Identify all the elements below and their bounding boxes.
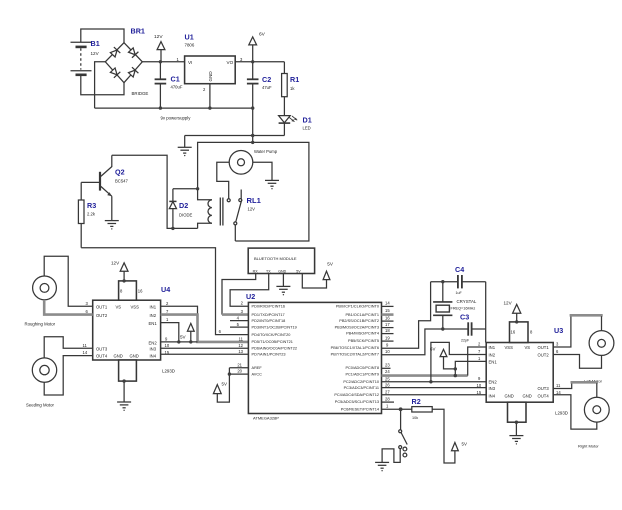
junction coil bottom D2 bbox=[171, 227, 174, 230]
wire U4 EN2 bbox=[161, 341, 198, 343]
svg-text:LED: LED bbox=[303, 126, 311, 131]
junction C1 rail bbox=[159, 106, 162, 109]
motor driver U4 L293D bbox=[83, 281, 175, 381]
svg-text:C4: C4 bbox=[455, 265, 464, 274]
svg-text:PB2/SS/OC1B/PCINT2: PB2/SS/OC1B/PCINT2 bbox=[339, 319, 379, 323]
seeding motor bbox=[26, 358, 57, 407]
svg-text:PD3/INT1/OC2B/PCINT19: PD3/INT1/OC2B/PCINT19 bbox=[252, 325, 297, 329]
SECTION: power supply bbox=[71, 27, 312, 157]
junction PC2 staircase bbox=[429, 380, 432, 383]
svg-text:PB3/MOSI/OC2A/PCINT3: PB3/MOSI/OC2A/PCINT3 bbox=[335, 325, 379, 329]
svg-text:DIODE: DIODE bbox=[179, 213, 192, 218]
power flag 6V u3 bbox=[430, 346, 455, 369]
svg-text:VS: VS bbox=[525, 345, 531, 350]
svg-text:D1: D1 bbox=[303, 116, 312, 125]
SECTION: reset bbox=[375, 397, 467, 472]
svg-text:Seeding Motor: Seeding Motor bbox=[26, 402, 55, 407]
ground pump bbox=[265, 180, 279, 189]
SECTION: bluetooth bbox=[222, 248, 334, 315]
regulator U1 7806 bbox=[177, 33, 244, 93]
wire roughing motor top to OUT1 bbox=[44, 256, 92, 306]
wire U2 AVCC bbox=[229, 373, 248, 375]
junction coil top D2 bbox=[196, 187, 199, 190]
motor driver U3 L293D bbox=[477, 322, 568, 422]
svg-text:U2: U2 bbox=[246, 292, 255, 301]
svg-text:GND: GND bbox=[505, 393, 514, 398]
junction EN1 EN2 bbox=[177, 340, 180, 343]
svg-text:EN1: EN1 bbox=[149, 321, 158, 326]
junction U4 gnd pin bbox=[122, 379, 125, 382]
power flag 5V avcc bbox=[213, 382, 227, 394]
wire BT TX to U2 PD0 bbox=[230, 274, 269, 307]
svg-text:15: 15 bbox=[385, 308, 390, 313]
svg-text:PD0/RXD/PCINT16: PD0/RXD/PCINT16 bbox=[252, 305, 286, 309]
svg-text:GND: GND bbox=[523, 393, 532, 398]
diode TR bbox=[128, 47, 139, 58]
relay box outline wire bbox=[198, 142, 309, 241]
junction crystal top C4 bbox=[441, 280, 444, 283]
wire BT 5V to flag bbox=[302, 274, 326, 289]
ground q2 emitter bbox=[105, 221, 119, 230]
svg-text:BLUETOOTH MODULE: BLUETOOTH MODULE bbox=[254, 256, 297, 261]
U2 short stubs left PD2 PD3 bbox=[230, 320, 248, 322]
svg-text:5V: 5V bbox=[462, 441, 467, 446]
relay RL1 contact bbox=[227, 190, 242, 242]
wire U3 OUT2 to motor bottom bbox=[553, 355, 601, 369]
left motor (top) bbox=[589, 331, 614, 356]
junction AREF AVCC bbox=[228, 372, 231, 375]
capacitor C2 bbox=[247, 62, 272, 108]
svg-text:23: 23 bbox=[385, 363, 390, 368]
transistor Q2 bbox=[81, 155, 128, 220]
svg-text:PC1/ADC1/PCINT9: PC1/ADC1/PCINT9 bbox=[345, 372, 379, 376]
svg-text:FREQ=16MHz: FREQ=16MHz bbox=[451, 306, 476, 310]
svg-text:13: 13 bbox=[238, 349, 243, 354]
junction relay box top bbox=[251, 141, 254, 144]
wire led bottom to ground run bbox=[185, 135, 285, 137]
wire bridge right to U1 bbox=[142, 61, 184, 63]
svg-text:R1: R1 bbox=[290, 75, 299, 84]
svg-text:TX: TX bbox=[266, 269, 271, 273]
svg-text:18: 18 bbox=[385, 328, 390, 333]
svg-text:U3: U3 bbox=[554, 326, 563, 335]
wire U4 IN3 to U2 PD6 bbox=[161, 347, 249, 349]
svg-text:12V: 12V bbox=[248, 207, 256, 212]
power flag 12V bbox=[154, 34, 165, 62]
svg-text:IN3: IN3 bbox=[150, 347, 157, 352]
bridge rectifier BR1 bbox=[105, 27, 148, 97]
capacitor C1 bbox=[155, 62, 183, 108]
svg-text:GND: GND bbox=[130, 354, 139, 359]
svg-text:PD5/T1/OC0B/PCINT21: PD5/T1/OC0B/PCINT21 bbox=[252, 340, 293, 344]
junction 5V EN2 bbox=[189, 340, 192, 343]
svg-text:PB6/TOSC1/XTAL1/PCINT6: PB6/TOSC1/XTAL1/PCINT6 bbox=[331, 346, 379, 350]
svg-text:Water Pump: Water Pump bbox=[254, 149, 278, 154]
svg-text:10: 10 bbox=[385, 349, 390, 354]
svg-text:10: 10 bbox=[477, 383, 482, 388]
svg-text:5V: 5V bbox=[327, 261, 334, 266]
svg-text:25: 25 bbox=[385, 377, 390, 382]
svg-text:10: 10 bbox=[165, 343, 170, 348]
svg-text:Right Motor: Right Motor bbox=[578, 443, 599, 448]
wire button to ground loop bbox=[382, 449, 400, 463]
crystal X1 bbox=[433, 282, 477, 329]
wire U2 PC6 reset row bbox=[382, 408, 412, 410]
svg-text:EN2: EN2 bbox=[489, 379, 498, 384]
SECTION: crystal bbox=[431, 265, 486, 343]
svg-text:IN2: IN2 bbox=[489, 352, 496, 357]
svg-text:11: 11 bbox=[239, 336, 244, 341]
svg-text:BC547: BC547 bbox=[115, 179, 128, 184]
wire U3 OUT3 to motor top bbox=[553, 383, 572, 388]
junction D1 ground run bbox=[251, 134, 254, 137]
svg-text:C2: C2 bbox=[262, 75, 271, 84]
wire coil bottom run bbox=[173, 227, 198, 229]
capacitor C4 bbox=[431, 265, 486, 295]
junction crystal bottom C3 bbox=[441, 327, 444, 330]
wire U3 OUT1 to motor top bbox=[553, 316, 571, 347]
ground BT bbox=[276, 286, 290, 295]
wire gray roughing bottom to OUT2 bbox=[44, 300, 92, 315]
svg-text:17: 17 bbox=[385, 322, 390, 327]
svg-text:GND: GND bbox=[278, 269, 286, 273]
svg-text:PD4/T0/XCK/PCINT20: PD4/T0/XCK/PCINT20 bbox=[252, 333, 291, 337]
wire U3 gnd stem bbox=[515, 422, 517, 435]
svg-text:D2: D2 bbox=[179, 201, 188, 210]
wire R3 bottom to U2 PD4 bbox=[81, 248, 248, 335]
svg-text:11: 11 bbox=[83, 343, 88, 348]
wire seeding motor bottom to OUT4 bbox=[44, 356, 92, 395]
power flag 12V u3 bbox=[504, 300, 521, 322]
svg-text:20: 20 bbox=[237, 369, 242, 374]
wire U3 IN1 riser bbox=[468, 347, 487, 376]
wire gray stub PB1 bbox=[382, 313, 394, 316]
svg-text:IN4: IN4 bbox=[489, 393, 496, 398]
junction EN1 PC1 bbox=[454, 374, 457, 377]
U2 left pin names bbox=[252, 305, 298, 377]
wire U2 PC3 to U3 IN3 bbox=[382, 387, 487, 389]
U2 left pin numbers bbox=[219, 301, 244, 374]
svg-text:BRIDGE: BRIDGE bbox=[132, 91, 149, 96]
svg-text:L293D: L293D bbox=[555, 411, 568, 416]
wire pump right to ground bbox=[253, 162, 272, 180]
wire U4 gnd stem bbox=[123, 381, 125, 402]
svg-text:VSS: VSS bbox=[131, 304, 140, 309]
wire D2 top run bbox=[173, 188, 198, 190]
svg-text:21: 21 bbox=[237, 362, 242, 367]
svg-text:14: 14 bbox=[83, 350, 88, 355]
junction dot reset bbox=[399, 407, 403, 411]
svg-text:27: 27 bbox=[385, 390, 390, 395]
wire AVCC node to 5V flag bbox=[217, 368, 229, 402]
svg-text:5V: 5V bbox=[180, 334, 187, 339]
junction U4 12V pin bbox=[122, 279, 125, 282]
svg-text:IN1: IN1 bbox=[489, 345, 496, 350]
wire gray motor top bar bbox=[570, 314, 603, 317]
power flag 5V reset bbox=[452, 441, 467, 450]
svg-text:Roughing Motor: Roughing Motor bbox=[25, 322, 56, 327]
ground reset bbox=[375, 462, 389, 471]
resistor R3 bbox=[78, 182, 96, 247]
wire U2 PB6 to crystal bbox=[382, 282, 431, 349]
junction U3 12V pin bbox=[515, 320, 518, 323]
ground psu bbox=[178, 136, 192, 157]
svg-text:OUT4: OUT4 bbox=[96, 354, 108, 359]
svg-text:OUT2: OUT2 bbox=[96, 313, 108, 318]
svg-text:1uF: 1uF bbox=[456, 291, 463, 295]
svg-text:U1: U1 bbox=[185, 33, 194, 42]
svg-text:C1: C1 bbox=[171, 75, 180, 84]
wire motor top drop bbox=[601, 316, 603, 330]
wire Q2 collector to coil bottom bbox=[112, 155, 173, 228]
power flag 5V u4 bbox=[180, 323, 194, 342]
svg-text:PD1/TXD/PCINT17: PD1/TXD/PCINT17 bbox=[252, 313, 285, 317]
svg-text:PC4/ADC4/SDA/PCINT12: PC4/ADC4/SDA/PCINT12 bbox=[334, 393, 379, 397]
wire right motor top drop bbox=[596, 383, 598, 397]
svg-text:VSS: VSS bbox=[505, 345, 514, 350]
svg-text:PC3/ADC3/PCINT11: PC3/ADC3/PCINT11 bbox=[344, 386, 379, 390]
svg-text:22pF: 22pF bbox=[461, 339, 470, 343]
svg-text:R2: R2 bbox=[412, 397, 421, 406]
wire U2 PC2 to U3 EN2 bbox=[382, 381, 487, 383]
svg-text:PD6/AIN0/OC0A/PCINT22: PD6/AIN0/OC0A/PCINT22 bbox=[252, 347, 298, 351]
wire U1 out bbox=[235, 61, 284, 63]
diode D2 bbox=[169, 189, 192, 229]
svg-text:PB4/MISO/PCINT4: PB4/MISO/PCINT4 bbox=[346, 331, 380, 335]
wire reset node down to button bbox=[400, 409, 402, 430]
svg-text:IN1: IN1 bbox=[150, 304, 157, 309]
wire R2 right to 5V flag bbox=[432, 409, 455, 463]
resistor R2 bbox=[412, 397, 433, 420]
wire U2 PB7 to crystal bbox=[382, 329, 443, 355]
power flag 6V bbox=[249, 32, 266, 62]
svg-text:Q2: Q2 bbox=[115, 168, 125, 177]
diode BR bbox=[128, 67, 139, 78]
svg-text:AREF: AREF bbox=[252, 366, 263, 370]
svg-text:IN2: IN2 bbox=[150, 313, 157, 318]
SECTION: relay driver bbox=[78, 141, 309, 335]
svg-text:12V: 12V bbox=[504, 300, 513, 305]
svg-text:470uF: 470uF bbox=[171, 85, 183, 90]
SECTION: u2 mcu bbox=[213, 282, 486, 421]
svg-text:OUT3: OUT3 bbox=[538, 386, 550, 391]
SECTION: u4 motors bbox=[25, 256, 249, 411]
svg-text:OUT4: OUT4 bbox=[538, 393, 550, 398]
wire gray RX segment bbox=[222, 313, 248, 316]
wire gray U2 PC1 to U3 IN1 riser bbox=[382, 374, 468, 377]
svg-text:11: 11 bbox=[556, 383, 561, 388]
junction U3 gnd pin bbox=[515, 421, 518, 424]
svg-text:C3: C3 bbox=[460, 313, 469, 322]
svg-text:PB5/SCK/PCINT5: PB5/SCK/PCINT5 bbox=[348, 339, 379, 343]
svg-text:12V: 12V bbox=[154, 34, 163, 40]
svg-text:PC0/ADC0/PCINT8: PC0/ADC0/PCINT8 bbox=[345, 366, 379, 370]
svg-text:RX: RX bbox=[253, 269, 259, 273]
svg-text:B1: B1 bbox=[91, 39, 100, 48]
diode TL bbox=[109, 47, 120, 58]
svg-text:2.2k: 2.2k bbox=[87, 212, 96, 217]
U2 right pin numbers bbox=[385, 301, 390, 409]
capacitor C3 bbox=[443, 313, 486, 343]
svg-text:7806: 7806 bbox=[185, 43, 195, 48]
diode BL bbox=[109, 67, 120, 78]
svg-text:15: 15 bbox=[477, 390, 482, 395]
wire U3 OUT4 to motor bottom bbox=[553, 395, 597, 429]
wire BT GND bbox=[282, 274, 284, 287]
led D1 bbox=[279, 116, 312, 136]
svg-text:U4: U4 bbox=[161, 285, 170, 294]
microcontroller U2 ATMEGA328P bbox=[246, 292, 382, 421]
junction node 12V C1 bbox=[159, 60, 162, 63]
bottom rail wire bbox=[95, 107, 253, 109]
svg-text:10k: 10k bbox=[412, 416, 418, 420]
svg-text:26: 26 bbox=[385, 383, 390, 388]
wire U4 IN4 to U2 PD7 bbox=[161, 353, 249, 355]
wire PC2 staircase to U3 IN2 bbox=[431, 342, 486, 381]
svg-text:EN2: EN2 bbox=[149, 340, 158, 345]
svg-text:GND: GND bbox=[208, 71, 213, 82]
svg-text:28: 28 bbox=[385, 396, 390, 401]
water pump motor bbox=[229, 149, 278, 174]
junction C2 rail bbox=[251, 106, 254, 109]
svg-text:PD2/INT0/PCINT18: PD2/INT0/PCINT18 bbox=[252, 319, 286, 323]
wire pump left to contact bbox=[217, 162, 230, 199]
svg-text:AVCC: AVCC bbox=[252, 372, 263, 376]
power flag 5V bt bbox=[323, 261, 334, 279]
svg-text:RL1: RL1 bbox=[247, 196, 262, 205]
svg-text:19: 19 bbox=[385, 335, 390, 340]
svg-text:6V: 6V bbox=[430, 346, 435, 351]
ground u4 bbox=[117, 402, 131, 411]
svg-text:PC5/ADC5/SCL/PCINT13: PC5/ADC5/SCL/PCINT13 bbox=[335, 400, 379, 404]
svg-text:5V: 5V bbox=[296, 269, 301, 273]
svg-text:12V: 12V bbox=[91, 51, 100, 56]
wire seeding motor top to OUT3 bbox=[44, 337, 92, 359]
roughing motor bbox=[25, 276, 57, 327]
svg-text:5V: 5V bbox=[222, 382, 227, 387]
wire gray U4 IN2 to U2 PD5 bbox=[161, 315, 249, 342]
svg-text:L293D: L293D bbox=[162, 369, 175, 374]
svg-text:VS: VS bbox=[116, 304, 122, 309]
junction U1 gnd rail bbox=[208, 106, 211, 109]
battery B1 bbox=[71, 39, 100, 75]
svg-text:24: 24 bbox=[385, 369, 390, 374]
svg-text:PC2/ADC2/PCINT10: PC2/ADC2/PCINT10 bbox=[343, 380, 379, 384]
svg-text:PD7/AIN1/PCINT23: PD7/AIN1/PCINT23 bbox=[252, 353, 286, 357]
bluetooth module bbox=[248, 248, 314, 273]
svg-text:ATMEGA328P: ATMEGA328P bbox=[253, 415, 279, 420]
svg-text:PC6/RESET/PCINT14: PC6/RESET/PCINT14 bbox=[341, 408, 380, 412]
svg-text:EN1: EN1 bbox=[489, 359, 498, 364]
svg-text:47uF: 47uF bbox=[262, 85, 272, 90]
svg-text:OUT1: OUT1 bbox=[96, 304, 108, 309]
wire battery top to bridge bbox=[81, 29, 124, 43]
wire U2 PC4 to U3 IN4 bbox=[382, 394, 487, 396]
wire battery bottom to bridge bottom bbox=[81, 75, 124, 95]
svg-text:IN3: IN3 bbox=[489, 386, 496, 391]
wire gray right motor bar bbox=[571, 381, 598, 384]
right motor (bottom) bbox=[584, 397, 609, 422]
svg-text:6V: 6V bbox=[259, 32, 266, 38]
relay RL1 coil bbox=[198, 189, 262, 229]
svg-text:R3: R3 bbox=[87, 201, 96, 210]
power flag 12V u4 bbox=[111, 260, 128, 281]
junction 6V EN1 bbox=[454, 367, 457, 370]
wire U4 EN1 down bbox=[161, 323, 179, 342]
svg-text:16: 16 bbox=[138, 289, 143, 294]
resistor R1 bbox=[282, 62, 300, 116]
svg-text:IN4: IN4 bbox=[150, 354, 157, 359]
wire U1 gnd pin to rail bbox=[209, 84, 211, 108]
svg-text:GND: GND bbox=[114, 354, 123, 359]
U2 right stubs PB0-PB4 PB5 PC0 PC5 bbox=[382, 305, 394, 307]
ground u3 bbox=[509, 436, 523, 445]
svg-text:9v powersupply: 9v powersupply bbox=[161, 116, 192, 121]
wire bridge left to bottom rail bbox=[95, 62, 106, 108]
svg-text:CRYSTAL: CRYSTAL bbox=[457, 299, 477, 304]
svg-text:OUT1: OUT1 bbox=[538, 345, 550, 350]
svg-text:BR1: BR1 bbox=[131, 27, 145, 36]
wire U4 IN1 jog bbox=[161, 306, 198, 314]
wire BT RX to U2 PD1 bbox=[222, 274, 256, 315]
svg-text:PB1/OC1A/PCINT1: PB1/OC1A/PCINT1 bbox=[345, 313, 379, 317]
U2 right pin names bbox=[331, 305, 380, 412]
svg-text:VI: VI bbox=[188, 60, 192, 65]
wire caps right side down to U3 corner bbox=[485, 282, 487, 343]
svg-text:PB7/TOSC2/XTAL2/PCINT7: PB7/TOSC2/XTAL2/PCINT7 bbox=[331, 353, 379, 357]
svg-text:16: 16 bbox=[385, 315, 390, 320]
svg-text:16: 16 bbox=[511, 330, 516, 335]
svg-text:PB0/ICP1/CLKO/PCINT0: PB0/ICP1/CLKO/PCINT0 bbox=[336, 305, 379, 309]
svg-text:VO: VO bbox=[227, 60, 234, 65]
junction node 6V C2 bbox=[251, 60, 254, 63]
wire U2 AREF to AVCC node bbox=[229, 367, 248, 369]
svg-text:OUT3: OUT3 bbox=[96, 347, 108, 352]
wire rail down to relay box bbox=[252, 108, 254, 142]
svg-text:14: 14 bbox=[385, 301, 390, 306]
wire U3 EN1 to 6V node bbox=[455, 361, 486, 375]
svg-text:12: 12 bbox=[238, 343, 243, 348]
SECTION: u3 motors bbox=[430, 300, 614, 448]
svg-text:OUT2: OUT2 bbox=[538, 352, 550, 357]
svg-text:12V: 12V bbox=[111, 260, 120, 265]
push button reset bbox=[399, 430, 408, 457]
